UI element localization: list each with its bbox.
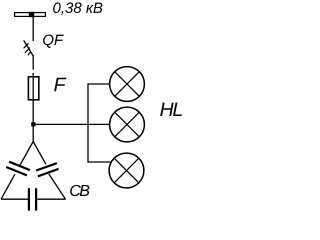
capacitor C-left plates (9, 162, 30, 170)
wire main horizontal to lamp HL2 (33, 123, 110, 125)
node junction (31, 122, 35, 126)
wire junction to capacitor bank apex (32, 124, 34, 142)
capacitor C-right plates (36, 163, 57, 170)
capacitor bank CB delta (1, 142, 66, 211)
label 0,38 кВ (53, 2, 102, 14)
label QF (43, 35, 64, 48)
wire breaker to junction through fuse (32, 55, 34, 70)
wire stub to lamp HL3 (87, 161, 111, 163)
wire apex to right capacitor (33, 142, 46, 165)
wire bottom capacitor to right corner (37, 198, 65, 200)
circuit breaker QF (24, 40, 33, 55)
wire feeder vertical (87, 84, 89, 162)
wire right capacitor to right corner (49, 174, 66, 199)
label F (54, 78, 66, 91)
wire apex to left capacitor (20, 142, 33, 166)
lamp HL3 (109, 153, 144, 188)
label HL (160, 103, 182, 116)
busbar 0,38 kV (15, 12, 46, 17)
wire left capacitor to left corner (1, 174, 15, 199)
wire bottom left corner to capacitor (1, 198, 28, 200)
wire stub to lamp HL1 (87, 83, 109, 85)
capacitor C-bottom plates (28, 188, 30, 210)
lamp HL2 (110, 107, 145, 142)
wire busbar to breaker (32, 17, 34, 41)
lamp HL1 (110, 67, 145, 102)
fuse F (28, 77, 38, 100)
label CB (70, 185, 89, 196)
